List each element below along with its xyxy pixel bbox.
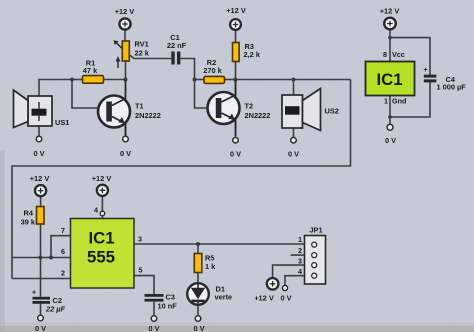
svg-text:+12 V: +12 V xyxy=(226,6,246,15)
wire: IC1 pin1 down to 0V xyxy=(389,96,391,125)
wire: R3 bottom to node D xyxy=(235,62,237,81)
svg-text:IC1: IC1 xyxy=(88,229,114,248)
svg-text:7: 7 xyxy=(61,226,65,235)
capacitor C2 xyxy=(32,290,66,314)
svg-text:0 V: 0 V xyxy=(230,150,241,159)
0V terminal C2 xyxy=(35,315,46,332)
svg-text:8: 8 xyxy=(383,50,387,59)
wire: pin4 circle to 555 top xyxy=(101,216,103,219)
transistor T2 xyxy=(208,80,271,136)
+12V terminal 5 (pin 4) xyxy=(92,174,112,196)
junction dot pin3/R5 xyxy=(196,242,200,246)
wire: feedback line right side down and across to bottom block xyxy=(12,80,351,279)
wire: 555 pin2 line xyxy=(12,278,71,280)
svg-text:3: 3 xyxy=(138,235,142,244)
wire: +12V terminal1 to RV1 top xyxy=(124,31,126,42)
svg-text:2: 2 xyxy=(61,269,65,278)
svg-text:0 V: 0 V xyxy=(280,294,291,303)
resistor R2 xyxy=(203,58,224,83)
wire: D1 bottom to 0V xyxy=(197,306,199,316)
junction dot pin6/pin7 xyxy=(49,256,53,260)
svg-text:22 nF: 22 nF xyxy=(167,41,187,50)
transducer US1 xyxy=(14,90,70,128)
svg-text:47 k: 47 k xyxy=(83,66,98,75)
potentiometer RV1 xyxy=(114,40,150,69)
wire: C4 branch bottom xyxy=(390,82,430,117)
+12V terminal 2 xyxy=(226,6,246,30)
svg-text:+12 V: +12 V xyxy=(92,174,112,183)
wire: R4 bottom to pin6 node xyxy=(40,224,42,258)
wire: +12V terminal2 to R3 top xyxy=(235,31,237,43)
svg-text:0 V: 0 V xyxy=(385,136,396,145)
wire: RV1 wiper to C1 xyxy=(130,55,172,59)
resistor R4 xyxy=(21,207,44,227)
pin 4 circle xyxy=(100,211,105,216)
svg-text:555: 555 xyxy=(87,248,115,267)
wire: node A down to T1 base xyxy=(72,80,99,109)
svg-text:22 µF: 22 µF xyxy=(45,305,66,314)
svg-text:4: 4 xyxy=(94,206,98,215)
wire: C1 right to node C xyxy=(181,59,195,80)
svg-text:4: 4 xyxy=(298,267,302,276)
wire: 555 pin6 line xyxy=(12,257,71,259)
wire: node D to T2 collector xyxy=(235,80,237,99)
node E junction dot xyxy=(292,78,296,82)
svg-text:C3: C3 xyxy=(166,293,175,302)
svg-text:0 V: 0 V xyxy=(148,324,159,332)
node A junction dot xyxy=(70,78,74,82)
svg-text:+: + xyxy=(32,290,36,297)
capacitor C4 xyxy=(423,67,466,92)
resistor R1 xyxy=(83,59,104,84)
resistor R3 xyxy=(233,42,261,62)
+12V terminal 3 (IC1 top right) xyxy=(380,7,400,30)
svg-text:1 000 µF: 1 000 µF xyxy=(437,83,467,92)
svg-text:0 V: 0 V xyxy=(33,149,44,158)
wire: +12V terminal4 to pin4 circle xyxy=(101,197,103,212)
svg-text:verte: verte xyxy=(215,293,233,302)
svg-text:+12 V: +12 V xyxy=(254,294,274,303)
0V terminal IC1 xyxy=(385,124,396,145)
svg-text:Gnd: Gnd xyxy=(392,97,406,106)
wire: R1 right to node B xyxy=(104,79,126,81)
0V terminal T2 xyxy=(230,137,241,158)
wire: US1 top lead xyxy=(39,80,72,110)
0V terminal C3 xyxy=(148,316,159,332)
svg-text:+12 V: +12 V xyxy=(380,7,400,16)
svg-text:6: 6 xyxy=(61,247,65,256)
svg-text:22 k: 22 k xyxy=(135,49,150,58)
svg-text:+12 V: +12 V xyxy=(115,7,135,16)
junction dot Vcc/C4 xyxy=(388,36,392,40)
wire: 0V terminal to JP1 pin4 xyxy=(285,276,312,286)
svg-text:39 k: 39 k xyxy=(21,218,36,227)
wire: node D to node E xyxy=(236,79,294,81)
0V terminal D1 xyxy=(193,316,204,332)
svg-text:US2: US2 xyxy=(325,107,339,116)
wire: JP1 pin2 stub xyxy=(291,254,312,256)
svg-text:+12 V: +12 V xyxy=(30,174,50,183)
wire: 555 pin7 loop xyxy=(51,236,71,258)
node D junction dot xyxy=(234,78,238,82)
svg-text:2N2222: 2N2222 xyxy=(135,111,161,120)
svg-text:+: + xyxy=(423,67,427,74)
svg-text:1 k: 1 k xyxy=(205,262,216,271)
transistor T1 xyxy=(98,80,161,136)
connector JP1 xyxy=(298,226,326,285)
node B junction dot xyxy=(124,78,128,82)
wire: C4 branch top xyxy=(390,38,430,75)
transducer US2 xyxy=(282,89,339,131)
resistor R5 xyxy=(194,254,216,273)
0V terminal T1 xyxy=(120,136,131,158)
svg-text:0 V: 0 V xyxy=(288,150,299,159)
svg-text:0 V: 0 V xyxy=(35,324,46,332)
svg-text:1: 1 xyxy=(298,235,302,244)
wire: node C down to T2 base xyxy=(195,80,209,109)
capacitor C1 xyxy=(167,33,187,65)
wire: pin6 node down to C2 xyxy=(40,258,42,297)
wire: pin3 node down to R5 xyxy=(197,244,199,254)
svg-text:JP1: JP1 xyxy=(309,226,322,235)
+12V terminal 6 (JP1) xyxy=(254,278,278,303)
svg-text:US1: US1 xyxy=(55,118,69,127)
junction dot pin6/R4 xyxy=(39,256,43,260)
wire: node A to R1 left xyxy=(72,79,83,81)
capacitor C3 xyxy=(145,293,178,311)
svg-text:2,2 k: 2,2 k xyxy=(244,50,261,59)
junction dot Gnd/C4 xyxy=(388,115,392,119)
wire: +12V terminal5 to JP1 pin3 xyxy=(273,265,312,278)
wire: 555 pin3 line to JP1 pin1 xyxy=(134,243,312,245)
svg-text:R4: R4 xyxy=(24,209,34,218)
wire: node E to corner at right xyxy=(294,79,351,81)
svg-text:0 V: 0 V xyxy=(120,149,131,158)
wire: C2 bottom to 0V xyxy=(40,304,42,316)
svg-text:1: 1 xyxy=(384,97,388,106)
0V terminal US2 xyxy=(288,137,299,158)
svg-text:T1: T1 xyxy=(135,102,144,111)
svg-text:270 k: 270 k xyxy=(203,66,222,75)
svg-text:Vcc: Vcc xyxy=(392,50,405,59)
wire: 555 pin5 to C3 xyxy=(134,276,154,294)
node C junction dot xyxy=(193,78,197,82)
svg-text:T2: T2 xyxy=(245,102,254,111)
wire: RV1 bottom to node B xyxy=(125,61,127,80)
svg-text:0 V: 0 V xyxy=(193,324,204,332)
0V terminal JP1 xyxy=(280,285,291,302)
0V terminal US1 xyxy=(33,136,44,158)
wire: T1 emitter to 0V xyxy=(125,123,127,137)
svg-text:5: 5 xyxy=(139,266,143,275)
svg-text:RV1: RV1 xyxy=(135,40,149,49)
svg-text:IC1: IC1 xyxy=(376,70,402,89)
wire: +12V terminal6 down to IC1 pin8 xyxy=(389,30,391,62)
wire: +12V terminal3 to R4 xyxy=(40,197,42,207)
svg-text:2N2222: 2N2222 xyxy=(245,111,271,120)
svg-text:10 nF: 10 nF xyxy=(158,302,178,311)
wire: T2 emitter to 0V xyxy=(235,119,237,137)
svg-text:2: 2 xyxy=(298,246,302,255)
wire: R2 right to node D xyxy=(225,79,236,81)
wire: US2 bottom lead to 0V xyxy=(293,116,295,138)
LED D1 xyxy=(187,283,232,305)
+12V terminal 4 (R4) xyxy=(30,174,50,196)
wire: US2 top lead xyxy=(293,80,295,107)
timer IC1 555 xyxy=(61,219,143,289)
wire: node C to R2 left xyxy=(195,79,205,81)
wire: C3 bottom to 0V xyxy=(153,302,155,316)
wire: US1 bottom lead to 0V xyxy=(38,116,40,137)
svg-text:3: 3 xyxy=(298,257,302,266)
op IC1 power block xyxy=(366,50,415,106)
+12V terminal 1 xyxy=(115,7,135,30)
wire: R5 bottom to D1 xyxy=(197,273,199,284)
